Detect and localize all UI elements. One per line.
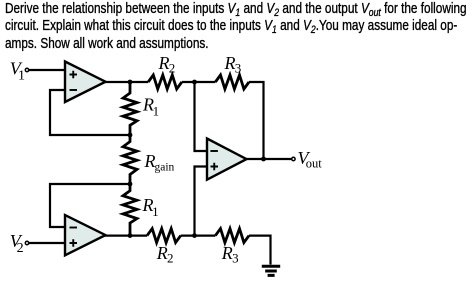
U1 inverting input marker - bbox=[70, 89, 78, 91]
U2 inverting input marker - bbox=[70, 227, 78, 229]
junction node C bbox=[128, 133, 133, 138]
op-amp U2 bbox=[65, 215, 106, 255]
junction node A bbox=[128, 80, 133, 85]
terminal Vout bbox=[292, 157, 295, 160]
op-amp U3 bbox=[207, 139, 247, 180]
junction node F bbox=[192, 233, 197, 238]
op-amp U1 bbox=[65, 62, 106, 103]
wire V2 lead bbox=[29, 242, 65, 244]
svg-text:gain: gain bbox=[155, 162, 175, 174]
resistor R2 top bbox=[148, 75, 182, 89]
wire U3 inverting input bbox=[195, 82, 208, 151]
resistor R3 bottom bbox=[215, 229, 249, 243]
junction node G bbox=[261, 157, 266, 162]
svg-text:1: 1 bbox=[153, 104, 160, 119]
svg-text:R: R bbox=[224, 53, 236, 73]
wire U3 output bbox=[245, 158, 291, 160]
svg-text:out: out bbox=[306, 157, 323, 171]
wire V1 lead bbox=[29, 69, 65, 71]
wire feedback U2 bbox=[50, 184, 130, 227]
junction node E bbox=[128, 233, 133, 238]
U1 non-inverting input marker + bbox=[70, 71, 78, 79]
terminal V1 bbox=[25, 68, 28, 71]
resistor R2 bottom bbox=[147, 229, 181, 243]
resistor Rgain bbox=[123, 135, 137, 184]
terminal V2 bbox=[25, 241, 28, 244]
svg-text:R: R bbox=[156, 243, 168, 263]
wire top rail bbox=[104, 82, 264, 159]
junction node B bbox=[192, 80, 197, 85]
U3 inverting input marker - bbox=[210, 150, 218, 152]
ground bbox=[262, 266, 280, 275]
svg-text:3: 3 bbox=[235, 61, 242, 76]
svg-text:2: 2 bbox=[167, 251, 174, 266]
wire U3 non-inverting input bbox=[195, 167, 208, 236]
resistor R1 bottom bbox=[123, 184, 137, 236]
wire feedback U1 bbox=[50, 90, 130, 135]
resistor R3 top bbox=[215, 75, 249, 89]
svg-text:R: R bbox=[158, 53, 170, 73]
resistor R1 top bbox=[123, 82, 137, 135]
svg-text:3: 3 bbox=[232, 251, 239, 266]
wire bottom rail bbox=[104, 236, 271, 265]
junction node D bbox=[128, 182, 133, 187]
svg-text:1: 1 bbox=[18, 68, 25, 83]
svg-text:2: 2 bbox=[169, 61, 176, 76]
svg-text:2: 2 bbox=[17, 241, 24, 256]
svg-text:R: R bbox=[221, 243, 233, 263]
U2 non-inverting input marker + bbox=[70, 239, 78, 247]
U3 non-inverting input marker + bbox=[211, 163, 219, 171]
svg-text:1: 1 bbox=[152, 204, 159, 219]
